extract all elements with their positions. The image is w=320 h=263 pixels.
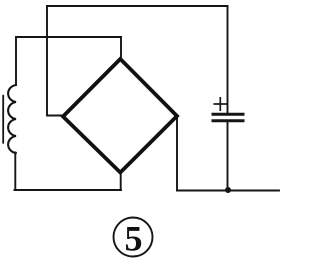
figure number 5 (circled)	[114, 218, 153, 259]
inductor L1	[3, 85, 16, 153]
wire bottom right horizontal	[177, 190, 279, 192]
wire bridge top lead	[120, 37, 122, 59]
bridge rectifier D1 (diamond)	[63, 59, 177, 173]
wire left vertical from top line to bridge left node	[47, 6, 63, 116]
capacitor plus sign	[214, 103, 228, 105]
wire top horizontal	[47, 5, 228, 7]
junction dot	[225, 187, 231, 193]
wire bridge bottom lead	[120, 172, 122, 190]
wire capacitor top lead	[227, 6, 229, 114]
svg-text:5: 5	[125, 219, 143, 259]
wire bridge right lead	[176, 117, 178, 191]
wire bottom left horizontal	[15, 189, 122, 191]
wire inductor bottom lead	[14, 153, 16, 191]
capacitor C1	[212, 97, 245, 121]
wire capacitor bottom lead	[227, 121, 229, 191]
wire inductor top lead	[15, 37, 17, 85]
wire inner horizontal	[16, 36, 121, 38]
